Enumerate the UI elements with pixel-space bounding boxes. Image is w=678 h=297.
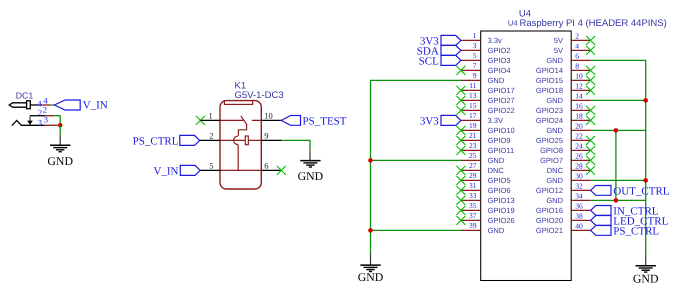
svg-text:19: 19 [469, 121, 477, 130]
svg-text:GPIO16: GPIO16 [536, 206, 563, 215]
header U4 body [481, 31, 572, 281]
U4 pin 27 (DNC) [461, 161, 505, 175]
svg-text:20: 20 [575, 121, 583, 130]
U4 pin 37 (GPIO26) [461, 211, 515, 225]
svg-text:3: 3 [38, 117, 42, 127]
no-connect X on U4 pin 27 [456, 166, 465, 175]
svg-text:PS_CTRL: PS_CTRL [133, 135, 179, 147]
U4 pin 40 (GPIO21) [536, 221, 591, 235]
power port flag SDA (U4 pin 3) [441, 45, 461, 55]
svg-text:39: 39 [469, 221, 477, 230]
relay K1 designator label [235, 80, 247, 91]
svg-text:SCL: SCL [419, 55, 439, 67]
svg-text:21: 21 [469, 131, 477, 140]
wire down to GND [59, 125, 61, 145]
power port flag SCL (U4 pin 5) [441, 55, 461, 65]
no-connect X on U4 pin 2 [586, 36, 595, 45]
svg-text:GPIO6: GPIO6 [488, 186, 511, 195]
svg-text:GPIO17: GPIO17 [488, 86, 515, 95]
U4 pin 15 (GPIO22) [461, 101, 515, 115]
junction on left rail row 39 [368, 228, 373, 233]
port flag PS_CTRL (relay pin 2) [180, 135, 200, 145]
relay pin 2 [200, 139, 220, 141]
svg-text:2: 2 [575, 31, 579, 40]
U4 pin 4 (5V) [554, 41, 591, 55]
U4 pin 1 (3.3v) [461, 31, 502, 45]
svg-text:GND: GND [546, 126, 563, 135]
U4 pin 36 (GPIO16) [536, 201, 591, 215]
svg-text:4: 4 [575, 41, 579, 50]
U4 pin 30 (GND) [546, 171, 590, 185]
svg-text:23: 23 [469, 141, 477, 150]
svg-text:3: 3 [44, 114, 48, 124]
svg-text:5: 5 [473, 51, 477, 60]
junction right rail row 14 [643, 98, 648, 103]
junction right rail row 30 [643, 178, 648, 183]
header U4 part name [520, 18, 667, 29]
svg-text:36: 36 [575, 201, 583, 210]
svg-text:DNC: DNC [547, 166, 564, 175]
wire pin4 red segment [42, 104, 51, 106]
junction inner rail row 20 [614, 128, 619, 133]
net label SDA [417, 45, 439, 57]
svg-text:8: 8 [575, 61, 579, 70]
U4 pin 28 (DNC) [547, 161, 591, 175]
svg-text:29: 29 [469, 171, 477, 180]
U4 pin 26 (GPIO7) [540, 151, 591, 165]
wire U4 pin 25 to left rail [370, 159, 461, 161]
svg-text:3.3V: 3.3V [488, 116, 503, 125]
wire pin3 green segment [57, 124, 61, 126]
U4 pin 13 (GPIO27) [461, 91, 515, 105]
svg-text:33: 33 [469, 191, 477, 200]
no-connect X on U4 pin 23 [456, 146, 465, 155]
svg-text:25: 25 [469, 151, 477, 160]
U4 pin 18 (GPIO24) [536, 111, 591, 125]
svg-text:6: 6 [264, 161, 268, 171]
svg-text:GPIO12: GPIO12 [536, 186, 563, 195]
svg-text:1: 1 [208, 111, 212, 121]
svg-text:GND: GND [488, 156, 505, 165]
wire U4 pin 20 to right rail [591, 129, 647, 131]
svg-text:31: 31 [469, 181, 477, 190]
U4 pin 3 (GPIO2) [461, 41, 511, 55]
U4 pin 2 (5V) [554, 31, 591, 45]
svg-text:GPIO20: GPIO20 [536, 216, 563, 225]
no-connect X on U4 pin 29 [456, 176, 465, 185]
no-connect X on relay pin 6 [277, 166, 286, 175]
no-connect X on U4 pin 10 [586, 76, 595, 85]
port flag PS_CTRL (U4 pin 40) [591, 226, 611, 236]
pin number 10 [264, 111, 273, 121]
net label IN_CTRL [613, 205, 659, 217]
U4 pin 5 (GPIO3) [461, 51, 511, 65]
U4 pin 22 (GPIO25) [536, 131, 591, 145]
port flag LED_CTRL (U4 pin 38) [591, 216, 611, 226]
junction on left rail row 25 [368, 158, 373, 163]
svg-text:11: 11 [469, 81, 476, 90]
svg-text:3.3v: 3.3v [488, 36, 502, 45]
no-connect X on U4 pin 33 [456, 196, 465, 205]
svg-text:5: 5 [209, 161, 213, 171]
svg-text:10: 10 [264, 111, 273, 121]
svg-text:40: 40 [575, 221, 583, 230]
svg-text:38: 38 [575, 211, 583, 220]
relay internal contact lines [220, 119, 261, 121]
svg-text:3V3: 3V3 [420, 115, 439, 127]
net label V_IN [153, 165, 178, 177]
relay pin 1 [200, 119, 220, 121]
wire right inner rail vertical [615, 130, 617, 200]
svg-text:GND: GND [488, 226, 505, 235]
svg-text:GPIO11: GPIO11 [488, 146, 515, 155]
relay pin 6 [261, 169, 281, 171]
no-connect X on U4 pin 11 [456, 86, 465, 95]
no-connect X on U4 pin 22 [586, 136, 595, 145]
no-connect X on U4 pin 15 [456, 106, 465, 115]
svg-text:OUT_CTRL: OUT_CTRL [613, 185, 670, 197]
junction inner rail row 34 [614, 198, 619, 203]
no-connect X on U4 pin 31 [456, 186, 465, 195]
wire pin2 green corner down to junction [54, 115, 60, 125]
pin number 5 [209, 161, 213, 171]
no-connect X on U4 pin 26 [586, 156, 595, 165]
relay armature plate [245, 136, 248, 145]
no-connect X on U4 pin 18 [586, 116, 595, 125]
svg-text:GPIO18: GPIO18 [536, 86, 563, 95]
svg-text:GND: GND [546, 56, 563, 65]
net label LED_CTRL [613, 215, 668, 227]
svg-text:G5V-1-DC3: G5V-1-DC3 [235, 90, 284, 101]
U4 pin 29 (GPIO5) [461, 171, 511, 185]
no-connect X on U4 pin 13 [456, 96, 465, 105]
svg-text:16: 16 [575, 101, 583, 110]
relay pin 9 [261, 139, 282, 141]
pin number 4 (large) [43, 96, 48, 106]
svg-text:GPIO23: GPIO23 [536, 106, 563, 115]
net label PS_TEST [303, 115, 347, 127]
net label SCL [419, 55, 439, 67]
relay K1 top bar [224, 101, 252, 105]
no-connect X on U4 pin 37 [456, 216, 465, 225]
svg-text:U4: U4 [508, 19, 518, 28]
pin number 2 (large) [43, 104, 47, 114]
svg-text:30: 30 [575, 171, 583, 180]
ground GND (relay pin 9) [298, 161, 324, 183]
U4 pin 17 (3.3V) [461, 111, 503, 125]
svg-text:9: 9 [264, 131, 268, 141]
no-connect X on U4 pin 35 [456, 206, 465, 215]
svg-text:GND: GND [47, 154, 73, 168]
svg-text:3: 3 [473, 41, 477, 50]
net label PS_CTRL [613, 225, 659, 237]
svg-text:GPIO14: GPIO14 [536, 66, 563, 75]
svg-text:22: 22 [575, 131, 583, 140]
svg-text:Raspberry PI 4 (HEADER 44PINS): Raspberry PI 4 (HEADER 44PINS) [520, 18, 667, 29]
svg-text:GND: GND [546, 96, 563, 105]
svg-text:GPIO8: GPIO8 [540, 146, 563, 155]
U4 pin 12 (GPIO18) [536, 81, 591, 95]
ground GND (DC1) [47, 145, 73, 168]
svg-text:GPIO10: GPIO10 [488, 126, 515, 135]
svg-text:GND: GND [358, 270, 384, 284]
net label 3V3 [420, 35, 439, 47]
pin number 6 [264, 161, 268, 171]
U4 pin 39 (GND) [461, 221, 505, 235]
wire right GND rail vertical [645, 60, 647, 254]
svg-text:GPIO25: GPIO25 [536, 136, 563, 145]
svg-text:V_IN: V_IN [83, 99, 108, 111]
svg-text:6: 6 [575, 51, 579, 60]
svg-text:GPIO15: GPIO15 [536, 76, 563, 85]
svg-text:2: 2 [38, 108, 42, 118]
port flag OUT_CTRL (U4 pin 32) [591, 186, 611, 196]
pin number 3 (small) [38, 117, 42, 127]
U4 pin 31 (GPIO6) [461, 181, 511, 195]
U4 pin 35 (GPIO19) [461, 201, 515, 215]
wire pin2 red segment [45, 115, 54, 117]
svg-text:GPIO24: GPIO24 [536, 116, 563, 125]
wire U4 pin 6 to right rail [591, 59, 647, 61]
U4 pin 10 (GPIO15) [536, 71, 591, 85]
svg-text:GPIO13: GPIO13 [488, 196, 515, 205]
svg-text:14: 14 [575, 91, 583, 100]
relay K1 body [220, 101, 261, 189]
relay internal coil line pins 2-9 [220, 139, 261, 141]
svg-text:GPIO5: GPIO5 [488, 176, 511, 185]
header U4 designator label [519, 9, 531, 20]
no-connect X on U4 pin 19 [456, 126, 465, 135]
U4 pin 16 (GPIO23) [536, 101, 591, 115]
port flag PS_TEST (relay pin 10) [281, 116, 300, 126]
svg-text:5V: 5V [554, 46, 563, 55]
svg-text:34: 34 [575, 191, 583, 200]
relay coil bottom lead [237, 145, 239, 171]
no-connect X on U4 pin 8 [586, 66, 595, 75]
wire U4 pin 39 to left rail [370, 229, 461, 231]
svg-text:18: 18 [575, 111, 583, 120]
svg-text:13: 13 [469, 91, 477, 100]
svg-text:GND: GND [298, 169, 324, 183]
U4 pin 19 (GPIO10) [461, 121, 515, 135]
connector DC1 designator label [16, 90, 34, 100]
wire pin 9 to ground [282, 140, 310, 160]
wire left GND rail vertical [370, 80, 372, 253]
relay pin 5 [200, 169, 220, 171]
connector DC1 switch arrow [27, 121, 33, 125]
no-connect X on U4 pin 16 [586, 106, 595, 115]
no-connect X on U4 pin 21 [456, 136, 465, 145]
wire pin4 to V_IN flag [51, 104, 55, 106]
U4 pin 11 (GPIO17) [461, 81, 515, 95]
svg-text:GPIO27: GPIO27 [488, 96, 515, 105]
wire U4 pin 9 to left rail [370, 79, 461, 81]
svg-text:GPIO4: GPIO4 [488, 66, 511, 75]
relay pin 10 [261, 119, 281, 121]
wire U4 pin 30 to right rail [591, 179, 647, 181]
net label 3V3 [420, 115, 439, 127]
ground GND (bottom left) [358, 253, 384, 284]
no-connect X on U4 pin 4 [586, 46, 595, 55]
svg-text:GPIO19: GPIO19 [488, 206, 515, 215]
wire U4 pin 34 to right rail [591, 199, 647, 201]
svg-text:GND: GND [546, 196, 563, 205]
no-connect X on U4 pin 28 [586, 166, 595, 175]
svg-text:12: 12 [575, 81, 583, 90]
svg-text:9: 9 [473, 71, 477, 80]
wire U4 pin 14 to right rail [591, 99, 647, 101]
relay coil arc [234, 136, 238, 145]
svg-text:GND: GND [546, 176, 563, 185]
svg-text:DC1: DC1 [16, 90, 34, 100]
svg-text:17: 17 [469, 111, 477, 120]
pin number 2 (small) [38, 108, 42, 118]
no-connect X on U4 pin 12 [586, 86, 595, 95]
svg-text:GND: GND [488, 76, 505, 85]
svg-text:35: 35 [469, 201, 477, 210]
U4 pin 25 (GND) [461, 151, 505, 165]
net label V_IN [83, 99, 108, 111]
pin number 9 [264, 131, 268, 141]
svg-text:GND: GND [633, 272, 659, 286]
pin number 1 [208, 111, 212, 121]
header U4 small designator [508, 19, 518, 28]
svg-text:27: 27 [469, 161, 477, 170]
relay K1 part name G5V-1-DC3 [235, 90, 284, 101]
svg-text:GPIO26: GPIO26 [488, 216, 515, 225]
svg-text:GPIO9: GPIO9 [488, 136, 511, 145]
U4 pin 8 (GPIO14) [536, 61, 591, 75]
U4 pin 24 (GPIO8) [540, 141, 591, 155]
svg-text:15: 15 [469, 101, 477, 110]
U4 pin 21 (GPIO9) [461, 131, 511, 145]
svg-text:2: 2 [43, 104, 47, 114]
svg-text:7: 7 [473, 61, 477, 70]
svg-text:GPIO21: GPIO21 [536, 226, 563, 235]
power port flag 3V3 (U4 pin 17) [441, 115, 461, 125]
pin number 3 (large) [44, 114, 48, 124]
svg-text:28: 28 [575, 161, 583, 170]
U4 pin 20 (GND) [546, 121, 590, 135]
no-connect X on relay pin 1 [196, 116, 205, 125]
svg-text:PS_TEST: PS_TEST [303, 115, 347, 127]
svg-text:PS_CTRL: PS_CTRL [613, 225, 659, 237]
svg-text:1: 1 [473, 31, 477, 40]
net label PS_CTRL [133, 135, 179, 147]
relay internal line pins 5-6 [220, 169, 261, 171]
no-connect X on U4 pin 24 [586, 146, 595, 155]
ground GND (bottom right) [633, 254, 659, 285]
junction at DC1 ground node [58, 123, 63, 128]
svg-text:5V: 5V [554, 36, 563, 45]
port flag V_IN (DC1) [54, 100, 80, 110]
power port flag 3V3 (U4 pin 1) [441, 35, 461, 45]
U4 pin 6 (GND) [546, 51, 590, 65]
U4 pin 23 (GPIO11) [461, 141, 514, 155]
svg-text:37: 37 [469, 211, 477, 220]
U4 pin 38 (GPIO20) [536, 211, 591, 225]
U4 pin 7 (GPIO4) [461, 61, 511, 75]
pin number 2 [209, 131, 213, 141]
U4 pin 32 (GPIO12) [536, 181, 591, 195]
port flag IN_CTRL (U4 pin 36) [591, 206, 611, 216]
svg-text:GPIO7: GPIO7 [540, 156, 563, 165]
connector DC1 switch contact pin 2 lead [30, 116, 45, 121]
connector DC1 tip contact (barrel pin symbol) [9, 101, 30, 109]
relay armature linkage [238, 125, 246, 136]
svg-text:24: 24 [575, 141, 583, 150]
svg-text:GPIO22: GPIO22 [488, 106, 515, 115]
svg-text:V_IN: V_IN [153, 165, 178, 177]
port flag V_IN (relay pin 5) [180, 165, 200, 175]
U4 pin 9 (GND) [461, 71, 505, 85]
svg-text:32: 32 [575, 181, 583, 190]
no-connect X on U4 pin 7 [456, 66, 465, 75]
net label OUT_CTRL [613, 185, 670, 197]
svg-text:26: 26 [575, 151, 583, 160]
U4 pin 34 (GND) [546, 191, 590, 205]
svg-text:10: 10 [575, 71, 583, 80]
svg-text:DNC: DNC [488, 166, 505, 175]
svg-text:GPIO3: GPIO3 [488, 56, 511, 65]
svg-text:GPIO2: GPIO2 [488, 46, 511, 55]
relay switch blade [241, 116, 247, 125]
U4 pin 33 (GPIO13) [461, 191, 515, 205]
svg-text:2: 2 [209, 131, 213, 141]
U4 pin 14 (GND) [546, 91, 590, 105]
connector DC1 pin 4 lead [30, 104, 42, 106]
connector DC1 sleeve contact (zigzag) pin 3 [12, 120, 45, 125]
wire pin3 red segment [45, 124, 57, 126]
pin number 4 (small) [37, 98, 42, 108]
